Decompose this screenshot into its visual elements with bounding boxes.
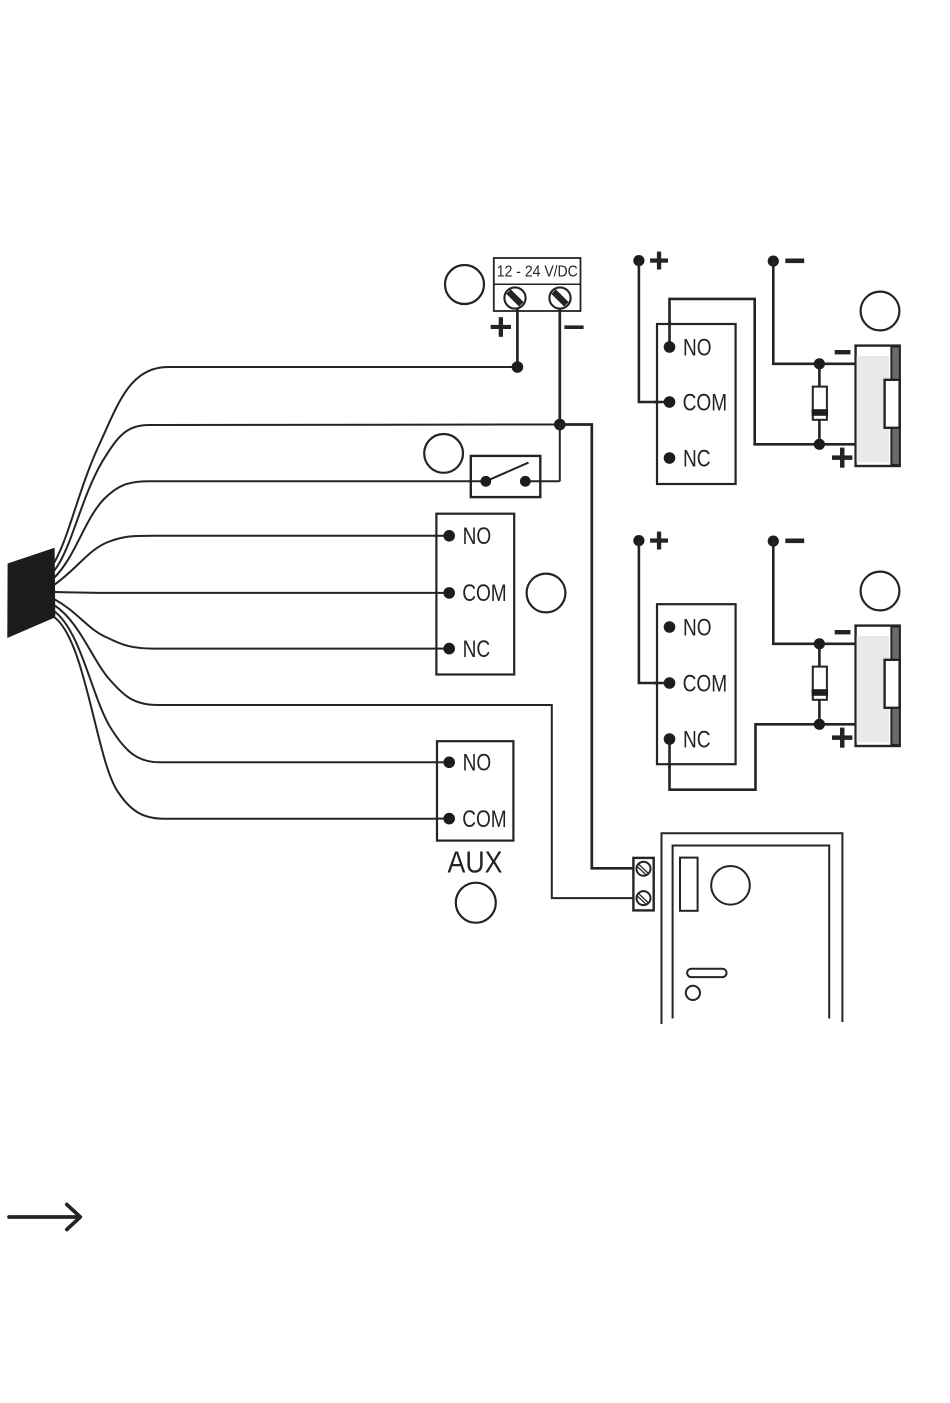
svg-text:COM: COM — [683, 670, 728, 697]
junction node (lock 2 − lead) — [814, 638, 825, 649]
svg-text:NO: NO — [463, 523, 492, 550]
wire from + screw down to wire 1 — [516, 308, 519, 367]
junction node B (− supply / wire 2) — [554, 419, 566, 431]
wire − to lock 2 — [773, 541, 856, 644]
wire relay NO to lock 1 + — [670, 299, 857, 444]
door handle — [687, 969, 727, 977]
relay contact block (lock 1) — [654, 321, 736, 484]
callout circle (lock 1) — [861, 292, 900, 331]
wire − to lock 1 — [773, 261, 856, 364]
wire from node B to door strike column — [560, 425, 634, 869]
wire 4 (to lock relay NO) — [54, 536, 449, 585]
label − (lock 2 supply) — [785, 539, 804, 544]
wire 8 (to AUX NO) — [54, 611, 449, 762]
diode D1 (flyback across lock 1) — [812, 364, 829, 445]
label − (lock 1 supply) — [785, 259, 804, 264]
screw terminal (− pole) — [549, 287, 570, 308]
wire 6 (to lock relay NC) — [54, 599, 449, 649]
junction node (lock 1 + lead) — [814, 439, 825, 450]
junction node A (+ supply / wire 1) — [512, 361, 524, 373]
wire 5 (to lock relay COM) — [54, 591, 449, 594]
AUX output block — [435, 741, 513, 840]
door contact screw 2 — [637, 891, 651, 905]
label − (power supply) — [564, 325, 583, 329]
door frame — [662, 833, 843, 1024]
label − at lock 2 — [835, 630, 851, 634]
callout circle (lock 2) — [861, 572, 900, 611]
node − (lock 2 supply) — [768, 536, 779, 547]
wire 7 (to door contact sensor) — [54, 605, 634, 898]
svg-text:NC: NC — [683, 726, 711, 753]
power supply terminal block — [494, 258, 581, 311]
wire + to relay COM (lock 2) — [639, 541, 670, 683]
callout circle (exit switch) — [424, 434, 463, 473]
wire 9 (to AUX COM) — [54, 617, 449, 819]
wire from node B down to exit switch — [559, 425, 561, 482]
junction node (lock 2 + lead) — [814, 719, 825, 730]
node + (lock 1 supply) — [633, 255, 644, 266]
wire 1 (red, to + of power supply) — [54, 367, 517, 563]
label + (power supply) — [491, 317, 511, 337]
svg-text:NO: NO — [683, 334, 712, 361]
exit switch S1 — [469, 456, 560, 497]
door hinge plate — [680, 858, 698, 911]
label + at lock 1 — [832, 448, 852, 468]
label + at lock 2 — [832, 728, 852, 748]
label + (lock 2 supply) — [650, 532, 668, 550]
node − (lock 1 supply) — [768, 256, 779, 267]
door contact terminal block — [633, 858, 653, 911]
svg-text:NO: NO — [463, 750, 492, 777]
label − at lock 1 — [835, 350, 851, 354]
wire + to relay COM (lock 1) — [639, 261, 670, 402]
lock relay output block — [435, 514, 515, 675]
svg-text:NC: NC — [683, 445, 711, 472]
screw terminal (+ pole) — [504, 287, 525, 308]
wire 2 (black, to − of power supply) — [54, 425, 556, 572]
direction arrow — [9, 1205, 80, 1230]
label + (lock 1 supply) — [650, 252, 668, 270]
door contact screw 1 — [637, 862, 651, 876]
electric strike lock 2 — [856, 626, 900, 746]
svg-text:COM: COM — [683, 389, 728, 416]
svg-text:NO: NO — [683, 614, 712, 641]
door lock cylinder — [686, 986, 700, 1000]
svg-text:COM: COM — [462, 580, 507, 607]
callout circle (lock relay) — [527, 574, 566, 613]
junction node (lock 1 − lead) — [814, 358, 825, 369]
relay contact block (lock 2) — [654, 604, 736, 767]
svg-text:NC: NC — [463, 636, 491, 663]
wire from − screw down to wire 2 — [558, 308, 561, 424]
svg-text:COM: COM — [462, 806, 507, 833]
svg-text:AUX: AUX — [448, 845, 503, 879]
cable bundle (controller pigtail) — [7, 548, 55, 638]
callout circle (AUX) — [456, 883, 496, 923]
node + (lock 2 supply) — [633, 535, 644, 546]
door leaf — [673, 846, 830, 1019]
wire relay NC to lock 2 + — [670, 724, 857, 789]
electric strike lock 1 — [856, 346, 900, 466]
diode D2 (flyback across lock 2) — [812, 644, 829, 725]
svg-text:12 - 24 V/DC: 12 - 24 V/DC — [497, 264, 578, 281]
callout circle (power supply) — [445, 265, 484, 304]
wire 3 (to exit switch) — [54, 481, 482, 578]
callout circle (door sensor) — [711, 866, 750, 905]
